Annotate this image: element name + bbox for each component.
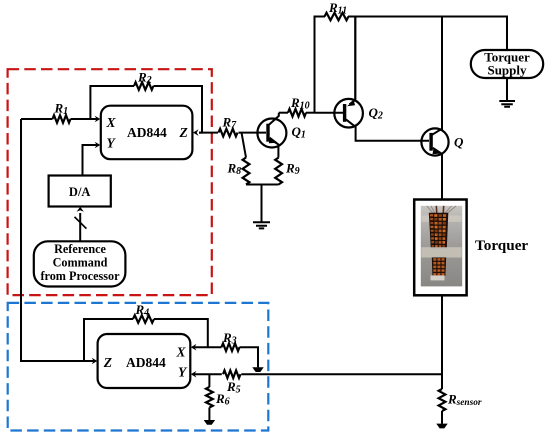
svg-text:D/A: D/A — [69, 185, 91, 199]
svg-text:Command: Command — [53, 256, 108, 270]
svg-text:from Processor: from Processor — [40, 269, 120, 283]
svg-text:Reference: Reference — [54, 242, 106, 256]
svg-text:AD844: AD844 — [126, 355, 166, 370]
svg-text:Torquer: Torquer — [475, 237, 528, 254]
svg-text:X: X — [176, 344, 187, 359]
svg-text:Supply: Supply — [487, 63, 527, 78]
svg-text:X: X — [106, 115, 117, 130]
svg-text:Q: Q — [454, 135, 464, 150]
svg-text:AD844: AD844 — [127, 125, 167, 140]
svg-text:Z: Z — [179, 125, 188, 140]
svg-text:Z: Z — [103, 355, 112, 370]
